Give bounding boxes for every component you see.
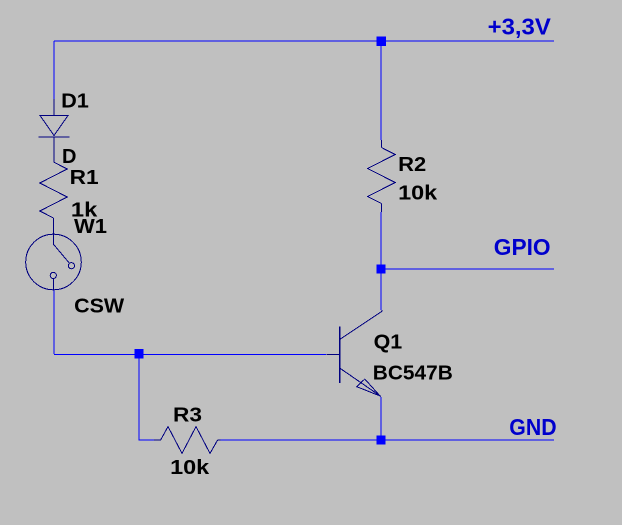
svg-text:D1: D1	[61, 90, 89, 112]
wire short into R3 left	[139, 439, 154, 441]
switch W1	[26, 234, 82, 290]
wire emitter to GND rail	[380, 397, 382, 440]
junction GND node	[376, 435, 385, 444]
wire bottom-left horizontal to base	[54, 353, 326, 355]
wire GND rail	[220, 439, 554, 441]
resistor R2	[368, 140, 396, 212]
svg-text:10k: 10k	[398, 182, 438, 204]
resistor R3	[154, 427, 221, 454]
svg-text:Q1: Q1	[374, 331, 403, 353]
transistor Q1	[326, 310, 382, 397]
svg-text:+3,3V: +3,3V	[488, 14, 552, 40]
svg-text:R2: R2	[398, 154, 426, 176]
diode D1	[39, 99, 70, 162]
junction on top rail	[377, 36, 386, 45]
svg-text:W1: W1	[74, 216, 107, 238]
junction left branch	[134, 349, 143, 358]
wire GPIO horizontal	[381, 268, 554, 270]
wire switch bottom to corner	[53, 290, 55, 354]
wire left drop from rail to D1	[53, 41, 55, 99]
svg-text:BC547B: BC547B	[373, 363, 453, 385]
junction GPIO node	[376, 264, 385, 273]
svg-text:R3: R3	[173, 404, 202, 426]
svg-text:GPIO: GPIO	[494, 234, 551, 260]
svg-text:GND: GND	[509, 414, 556, 440]
resistor R1	[40, 162, 67, 235]
wire branch down from junction to R3	[138, 354, 140, 441]
wire right drop from rail to R2	[380, 41, 382, 140]
svg-text:CSW: CSW	[74, 296, 124, 318]
wire R2 to collector through GPIO node	[380, 212, 382, 310]
wire top rail +3,3V	[54, 40, 554, 42]
svg-text:10k: 10k	[170, 457, 210, 479]
svg-text:D: D	[62, 146, 76, 168]
svg-text:R1: R1	[70, 167, 99, 189]
